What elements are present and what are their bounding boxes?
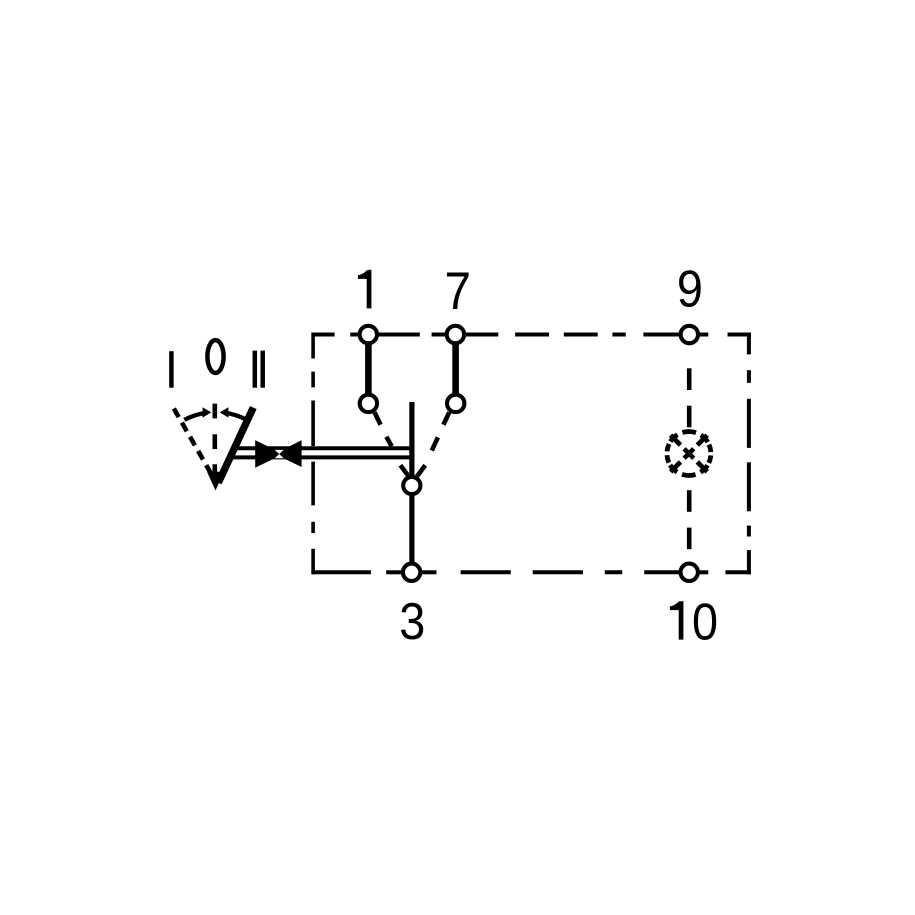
position label I [169,351,174,388]
svg-text:7: 7 [445,261,472,321]
dashed travel link contact 7 to pole [417,412,449,476]
fixed contact below terminal 1 [360,395,377,412]
svg-text:0: 0 [692,593,718,651]
lamp L1 dashed circle [667,432,711,476]
detent symbol (bowtie triangles) [255,440,301,468]
enclosure right edge [747,333,751,575]
lamp filament spokes [671,435,708,472]
travel arc left with arrowhead [184,413,206,420]
actuator travel left limit (dashed) [174,409,211,474]
dashed travel link contact 1 to pole [375,412,409,476]
svg-text:9: 9 [677,260,703,318]
terminal 10 [681,564,698,581]
terminal 3 [403,564,420,581]
position label 0 [207,340,223,373]
mechanical linkage double line [229,448,413,457]
actuator return arrowhead (down) [207,472,224,491]
terminal 9 [681,326,698,343]
actuator center dashed axis [213,434,218,474]
dashed lamp feed terminal 9 to lamp [687,368,692,427]
enclosure left edge [311,333,315,575]
lamp center cross [684,449,694,459]
actuator center position tick [213,404,218,419]
terminal 1 [360,326,377,343]
pole pivot contact [403,477,420,494]
detent white notch [275,450,284,458]
wire stub terminal 7 to fixed contact [452,341,459,397]
pin number 1 [358,270,372,309]
actuator lever [218,408,253,483]
travel arc right with arrowhead [225,413,247,420]
pin number 10 [670,601,684,640]
svg-text:3: 3 [399,593,425,651]
enclosure top edge [312,333,751,337]
fixed contact below terminal 7 [447,395,464,412]
terminal 7 [447,326,464,343]
enclosure bottom edge [312,570,751,574]
pole wire (common) to terminal 3 [409,402,414,570]
wire stub terminal 1 to fixed contact [365,341,372,397]
position label II [255,351,263,388]
dashed lamp return lamp to terminal 10 [687,490,692,549]
